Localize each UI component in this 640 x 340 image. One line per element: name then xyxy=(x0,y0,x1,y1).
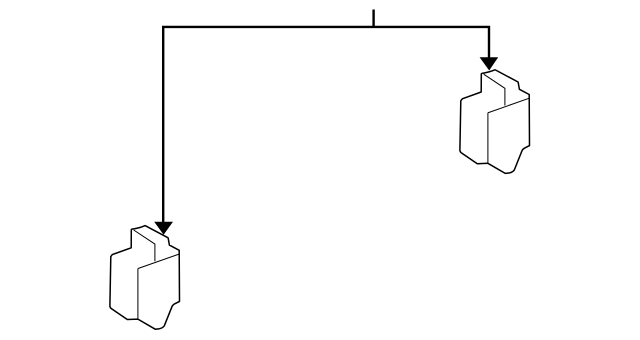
callout tick xyxy=(372,10,374,27)
leader line (horizontal with branches) xyxy=(163,27,489,224)
brake pad part left xyxy=(110,226,180,330)
arrowhead right xyxy=(480,57,499,70)
arrowhead left xyxy=(154,222,173,235)
brake pad part right xyxy=(460,70,530,174)
